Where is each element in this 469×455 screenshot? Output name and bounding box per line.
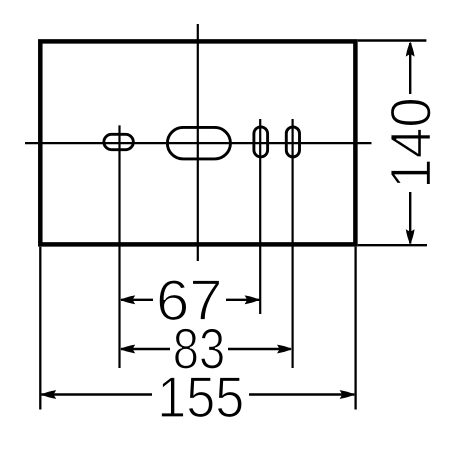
arrow 83 right [277,345,292,354]
horizontal centerline [25,142,372,144]
left extension line below plate [39,247,41,410]
dimension line 67 right segment [226,299,259,301]
dimension line 140 bottom segment [409,192,411,244]
arrow 140 top [406,42,415,57]
slot hole 2 [286,127,299,157]
label 155 [157,364,244,429]
dimension line 67 left segment [121,299,153,301]
slot hole 1 [254,127,268,157]
dimension line 140 top segment [409,43,411,94]
dimension line 83 right segment [228,348,291,350]
small oval hole [104,134,134,149]
vertical centerline through small oval hole [118,125,120,368]
label 83 [173,317,225,382]
arrow 67 right [245,295,260,304]
arrow 140 bottom [406,229,415,244]
large oval hole [167,127,230,159]
arrow 155 right [340,390,355,399]
dimension line 83 left segment [121,348,170,350]
svg-text:140: 140 [378,97,443,189]
label 140 (rotated) [378,97,443,189]
arrow 155 left [41,390,56,399]
vertical centerline through large oval hole [197,24,199,261]
dimension line 155 left segment [42,393,153,395]
plate outline [40,41,355,244]
dimension line 155 right segment [249,393,354,395]
right extension line below plate [354,247,356,410]
label 67 [156,269,223,333]
arrow 83 left [120,345,135,354]
arrow 67 left [120,295,135,304]
bottom right extension line [358,244,427,246]
vertical centerline through slot 1 [259,119,261,314]
svg-text:155: 155 [157,364,244,429]
vertical centerline through slot 2 [292,119,294,368]
top right extension line [358,39,427,41]
